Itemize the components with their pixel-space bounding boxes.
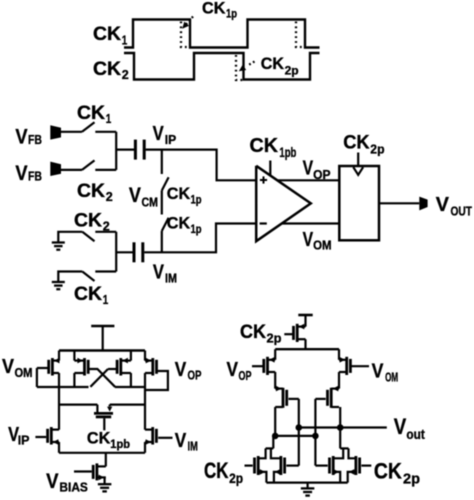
svg-text:V: V <box>175 358 187 381</box>
svg-text:FB: FB <box>28 132 42 147</box>
svg-text:V: V <box>394 414 407 439</box>
svg-text:2p: 2p <box>229 470 243 486</box>
svg-text:2: 2 <box>122 67 129 82</box>
svg-text:CK: CK <box>374 459 402 484</box>
svg-text:V: V <box>15 125 28 149</box>
svg-text:1: 1 <box>103 292 109 307</box>
svg-text:CM: CM <box>142 195 159 210</box>
svg-text:CK: CK <box>167 215 190 233</box>
svg-text:V: V <box>153 122 164 145</box>
svg-text:1: 1 <box>106 111 112 126</box>
svg-text:V: V <box>227 358 239 381</box>
svg-text:OP: OP <box>313 167 331 182</box>
svg-text:OM: OM <box>385 370 398 385</box>
svg-text:1p: 1p <box>191 224 202 236</box>
svg-text:BIAS: BIAS <box>59 481 88 495</box>
svg-text:FB: FB <box>28 169 42 184</box>
svg-text:2p: 2p <box>285 66 299 78</box>
svg-text:OP: OP <box>239 368 252 383</box>
svg-text:V: V <box>46 469 59 493</box>
svg-text:2p: 2p <box>267 331 282 346</box>
svg-text:OP: OP <box>188 368 202 383</box>
svg-text:CK: CK <box>250 135 279 157</box>
svg-text:CK: CK <box>167 185 190 203</box>
svg-text:1: 1 <box>122 33 128 48</box>
svg-text:CK: CK <box>87 428 110 447</box>
svg-text:CK: CK <box>204 458 229 483</box>
svg-text:1pb: 1pb <box>279 145 296 160</box>
svg-text:V: V <box>153 261 164 284</box>
svg-text:2p: 2p <box>370 142 384 157</box>
svg-text:OUT: OUT <box>451 205 473 219</box>
svg-text:CK: CK <box>77 181 105 202</box>
svg-text:CK: CK <box>93 24 121 45</box>
svg-text:CK: CK <box>240 322 266 343</box>
svg-text:CK: CK <box>93 59 121 80</box>
svg-text:V: V <box>129 184 141 207</box>
svg-text:CK: CK <box>74 284 102 305</box>
svg-text:CK: CK <box>202 0 225 17</box>
svg-text:out: out <box>406 427 425 442</box>
svg-text:2p: 2p <box>403 472 420 488</box>
svg-text:CK: CK <box>77 103 105 124</box>
svg-text:IP: IP <box>165 132 177 147</box>
svg-text:V: V <box>372 360 384 383</box>
svg-text:CK: CK <box>74 211 102 232</box>
svg-text:V: V <box>436 193 450 216</box>
svg-text:2: 2 <box>103 219 110 234</box>
svg-text:IP: IP <box>18 433 30 448</box>
svg-text:V: V <box>303 157 314 180</box>
svg-text:V: V <box>175 429 187 452</box>
svg-text:IM: IM <box>188 439 198 454</box>
svg-text:1p: 1p <box>191 195 202 207</box>
svg-text:2: 2 <box>106 189 113 204</box>
svg-text:1pb: 1pb <box>110 439 130 451</box>
svg-text:CK: CK <box>261 55 284 73</box>
svg-text:IM: IM <box>165 271 177 286</box>
svg-text:1p: 1p <box>226 9 237 21</box>
svg-text:OM: OM <box>15 365 33 380</box>
svg-text:V: V <box>2 355 14 378</box>
svg-text:V: V <box>15 161 28 185</box>
svg-text:OM: OM <box>313 238 332 253</box>
svg-text:V: V <box>303 228 314 251</box>
svg-text:CK: CK <box>343 133 370 154</box>
